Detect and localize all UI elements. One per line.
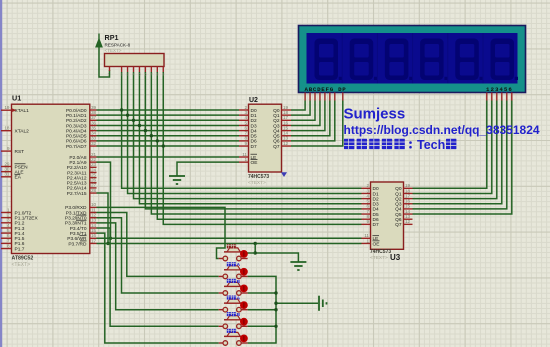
svg-text:74HC573: 74HC573 <box>248 174 269 180</box>
display 7SEG-MPX6 6-digit <box>299 26 526 101</box>
svg-text:9: 9 <box>162 73 164 77</box>
svg-text:P2.6/A14: P2.6/A14 <box>67 186 87 192</box>
svg-text:P0.2/AD2: P0.2/AD2 <box>66 118 87 124</box>
wire bus3 RP1 pin5 down through P0.3 to U3 D3 <box>139 72 361 204</box>
svg-text:Q0: Q0 <box>395 186 402 192</box>
junction P0.5 x bus5 <box>150 134 153 137</box>
wire P0.1 U1 to U2 D1 <box>97 114 240 116</box>
mcu U1 AT89C52 <box>1 94 97 268</box>
wire U2 Q7 to display segment pin <box>291 101 343 147</box>
svg-text:D2: D2 <box>373 196 379 202</box>
ground U2 OE <box>169 175 185 177</box>
svg-text:Q6: Q6 <box>395 217 402 223</box>
svg-text:31: 31 <box>4 172 10 177</box>
wire P3.2 to button3 <box>97 218 219 293</box>
svg-text:7: 7 <box>150 73 152 77</box>
svg-text:Q1: Q1 <box>273 113 280 119</box>
wire P0.2 U1 to U2 D2 <box>97 119 240 121</box>
svg-text:1: 1 <box>244 157 247 162</box>
button 显示B (button5) <box>219 312 248 329</box>
display digit 2 <box>350 39 374 81</box>
junction P0.7 x bus7 <box>162 144 165 147</box>
svg-text:P3.7/RD: P3.7/RD <box>68 241 87 247</box>
wire U2 Q1 to display segment pin <box>291 101 310 116</box>
svg-text:U1: U1 <box>12 94 21 103</box>
svg-text:P1.3: P1.3 <box>15 226 25 232</box>
wire P3.5 to button6 <box>97 233 219 343</box>
wire P2.1 down to U3 LE net <box>97 162 111 238</box>
svg-text:Q7: Q7 <box>273 144 280 150</box>
wire bus2 RP1 pin4 down through P0.2 to U3 D2 <box>134 72 362 199</box>
resistor pack RP1 RESPACK-8 <box>105 33 165 77</box>
svg-text:12: 12 <box>405 219 411 224</box>
svg-text:Q5: Q5 <box>395 212 402 218</box>
svg-text:P0.5/AD5: P0.5/AD5 <box>66 134 87 140</box>
wire bus to ground2 <box>276 302 318 304</box>
svg-text:EA: EA <box>15 175 22 181</box>
svg-text:XTAL2: XTAL2 <box>15 129 30 135</box>
wire bus5 RP1 pin7 down through P0.5 to U3 D5 <box>151 72 361 214</box>
wire bus1 RP1 pin3 down through P0.1 to U3 D1 <box>128 72 362 193</box>
svg-text:74HC573: 74HC573 <box>370 249 391 255</box>
svg-text:LE: LE <box>373 236 379 242</box>
svg-text:<TEXT>: <TEXT> <box>105 48 122 53</box>
svg-text:Q2: Q2 <box>273 118 280 124</box>
svg-text:1: 1 <box>108 73 110 77</box>
svg-text:D3: D3 <box>373 202 379 208</box>
ground button1 net <box>290 261 306 263</box>
svg-text:PSEN: PSEN <box>15 164 29 170</box>
svg-text:Q1: Q1 <box>395 191 402 197</box>
svg-text:D4: D4 <box>251 128 257 134</box>
svg-text:D0: D0 <box>251 108 257 114</box>
svg-text:P2.2/A10: P2.2/A10 <box>67 165 87 171</box>
svg-text:Q2: Q2 <box>395 196 402 202</box>
svg-text:D1: D1 <box>373 191 379 197</box>
svg-text:A: A <box>237 262 241 268</box>
button 停止B (button3) <box>219 279 248 296</box>
wire P0.3 U1 to U2 D3 <box>97 124 240 126</box>
svg-text:P0.1/AD1: P0.1/AD1 <box>66 113 87 119</box>
wire P2.0 to U2 LE <box>97 156 240 158</box>
svg-text:D0: D0 <box>373 186 379 192</box>
wire bus0 RP1 pin2 down through P0.0 to U3 D0 <box>122 72 362 188</box>
wire U2 Q5 to display segment pin <box>291 101 330 136</box>
svg-text:OE: OE <box>251 160 258 166</box>
svg-text:19: 19 <box>4 105 10 110</box>
svg-text:P2.1/A9: P2.1/A9 <box>69 160 86 166</box>
svg-text:4: 4 <box>133 73 135 77</box>
display segment pins <box>304 93 306 101</box>
button 显示A (button4) <box>219 296 248 313</box>
svg-text:OE: OE <box>373 241 380 247</box>
wire P2.7 down to U3 OE net <box>97 193 109 243</box>
wire U2 OE to ground <box>177 162 239 176</box>
svg-text:D4: D4 <box>373 207 379 213</box>
svg-text:RP1: RP1 <box>105 33 119 42</box>
display digit 5 <box>455 39 479 81</box>
svg-text:P3.0/RXD: P3.0/RXD <box>65 205 87 211</box>
svg-text:8: 8 <box>156 73 158 77</box>
svg-text:P1.7: P1.7 <box>15 246 25 252</box>
wire U2 Q0 to display segment pin <box>291 101 305 111</box>
svg-text:Sumjess: Sumjess <box>344 106 406 123</box>
svg-text:RST: RST <box>15 149 25 155</box>
wire RP1 pin1 to VCC arrow <box>99 47 110 77</box>
svg-text:D7: D7 <box>373 222 379 228</box>
wire U3 Q0 to display column 1 <box>413 101 487 189</box>
svg-text:Q5: Q5 <box>273 134 280 140</box>
svg-text:28: 28 <box>91 188 97 193</box>
svg-text:P2.3/A11: P2.3/A11 <box>67 170 87 176</box>
svg-text:P2.0/A8: P2.0/A8 <box>69 155 86 161</box>
wire U2 Q2 to display segment pin <box>291 101 315 121</box>
svg-text:Tech: Tech <box>417 138 445 152</box>
svg-text:P1.6: P1.6 <box>15 241 25 247</box>
svg-text:P0.0/AD0: P0.0/AD0 <box>66 108 87 114</box>
junction P2.1/U3 LE net <box>109 237 112 240</box>
svg-text:https://blog.csdn.net/qq_38351: https://blog.csdn.net/qq_38351824 <box>344 123 540 137</box>
display digit 4 <box>420 39 444 81</box>
svg-text:B: B <box>237 312 241 318</box>
svg-text:D6: D6 <box>373 217 379 223</box>
wire P3.3 to button4 <box>97 223 219 310</box>
svg-text:18: 18 <box>4 126 10 131</box>
wire U3 OE net branch to button1 and ground <box>254 242 257 245</box>
svg-text:ABCDEFG DP: ABCDEFG DP <box>305 86 347 93</box>
wire U3 Q5 to display column 6 <box>413 101 512 215</box>
svg-text:P2.4/A12: P2.4/A12 <box>67 175 87 181</box>
wire U3 Q4 to display column 5 <box>413 101 507 209</box>
svg-text:<TEXT>: <TEXT> <box>12 262 31 268</box>
svg-text:D5: D5 <box>373 212 379 218</box>
wire P3.7 to U3 OE <box>97 242 362 244</box>
svg-text:3: 3 <box>127 73 129 77</box>
svg-text:XTAL1: XTAL1 <box>15 108 30 114</box>
wire P0.6 U1 to U2 D6 <box>97 140 240 142</box>
wire bus7 RP1 pin9 down through P0.7 to U3 D7 <box>163 72 361 224</box>
label wechat (CJK drawn as vector glyph blocks) <box>344 139 354 149</box>
svg-text:U3: U3 <box>390 253 401 262</box>
svg-text:D1: D1 <box>251 113 257 119</box>
svg-text:6: 6 <box>144 73 146 77</box>
svg-text:U2: U2 <box>249 97 258 104</box>
svg-text:LE: LE <box>251 155 257 161</box>
wire U2 Q4 to display segment pin <box>291 101 325 131</box>
svg-text:P0.4/AD4: P0.4/AD4 <box>66 128 87 134</box>
junction P0.0 x bus0 <box>120 108 123 111</box>
wire U3 Q3 to display column 4 <box>413 101 502 204</box>
wire U2 Q6 to display segment pin <box>291 101 335 141</box>
junction P0.2 x bus2 <box>132 119 135 122</box>
svg-text:P1.1/T2EX: P1.1/T2EX <box>15 215 39 221</box>
svg-text:9: 9 <box>7 146 10 151</box>
wire button right common bus <box>248 276 276 343</box>
svg-text:P2.7/A15: P2.7/A15 <box>67 191 87 197</box>
svg-text:P1.2: P1.2 <box>15 221 25 227</box>
svg-text:12: 12 <box>283 141 289 146</box>
wire P3.6 to U3 LE <box>97 237 362 239</box>
svg-text:17: 17 <box>91 238 97 243</box>
svg-text:Q7: Q7 <box>395 222 402 228</box>
wire P0.7 U1 to U2 D7 <box>97 145 240 147</box>
svg-text:B: B <box>237 279 241 285</box>
svg-text:D6: D6 <box>251 139 257 145</box>
button 停止A (button2) <box>219 262 248 279</box>
svg-text:32: 32 <box>91 141 97 146</box>
wire U3 Q2 to display column 3 <box>413 101 497 199</box>
wire P3.0 to button1 <box>97 207 226 258</box>
wire U3 Q1 to display column 2 <box>413 101 492 194</box>
junction P0.6 x bus6 <box>156 139 159 142</box>
latch U2 74HC573 <box>239 97 291 186</box>
svg-text:P0.6/AD6: P0.6/AD6 <box>66 139 87 145</box>
svg-text:P1.4: P1.4 <box>15 231 25 237</box>
svg-text:Q6: Q6 <box>273 139 280 145</box>
svg-text:RESPACK-8: RESPACK-8 <box>105 43 131 48</box>
svg-text:Q3: Q3 <box>273 123 280 129</box>
svg-text:AT89C52: AT89C52 <box>12 256 34 262</box>
wire P3.4 to button5 <box>97 228 219 326</box>
svg-text:D5: D5 <box>251 134 257 140</box>
wire P0.4 U1 to U2 D4 <box>97 130 240 132</box>
svg-text:P3.3/INT1: P3.3/INT1 <box>65 221 87 227</box>
svg-text:2: 2 <box>121 73 123 77</box>
svg-text:9: 9 <box>244 141 247 146</box>
svg-text:D7: D7 <box>251 144 257 150</box>
wire P3.1 to button2 <box>97 213 219 277</box>
svg-text:Q3: Q3 <box>395 202 402 208</box>
svg-text:Q0: Q0 <box>273 108 280 114</box>
wire P0.5 U1 to U2 D5 <box>97 135 240 137</box>
junction P0.1 x bus1 <box>126 113 129 116</box>
ground (rotated) button common bus <box>318 296 320 311</box>
svg-text:D2: D2 <box>251 118 257 124</box>
svg-text:P1.5: P1.5 <box>15 236 25 242</box>
svg-text:8: 8 <box>7 243 10 248</box>
svg-text:P3.4/T0: P3.4/T0 <box>70 226 87 232</box>
svg-text:P1.0/T2: P1.0/T2 <box>15 210 32 216</box>
svg-text:<TEXT>: <TEXT> <box>248 180 266 186</box>
wire bus6 RP1 pin8 down through P0.6 to U3 D6 <box>157 72 361 219</box>
display digit 1 <box>315 39 339 81</box>
svg-text:<TEXT>: <TEXT> <box>370 255 388 261</box>
svg-text:P2.5/A13: P2.5/A13 <box>67 181 87 187</box>
svg-text:P0.7/AD7: P0.7/AD7 <box>66 144 87 150</box>
svg-text:A: A <box>237 296 241 302</box>
svg-text:P0.3/AD3: P0.3/AD3 <box>66 123 87 129</box>
svg-text:P3.2/INT0: P3.2/INT0 <box>65 216 87 222</box>
button 复位 (button6) <box>219 329 248 346</box>
svg-text:Q4: Q4 <box>273 128 280 134</box>
junction P0.4 x bus4 <box>144 129 147 132</box>
junction P2.7/U3 OE net <box>106 242 109 245</box>
wire P0.0 U1 to U2 D0 <box>97 109 240 111</box>
svg-text:1: 1 <box>366 238 369 243</box>
svg-text:D3: D3 <box>251 123 257 129</box>
junction P0.3 x bus3 <box>138 124 141 127</box>
display digit 3 <box>385 39 409 81</box>
wire bus4 RP1 pin6 down through P0.4 to U3 D4 <box>145 72 361 209</box>
latch U3 74HC573 <box>362 182 413 262</box>
button 开始 (button1) <box>219 244 248 261</box>
display digit 6 <box>491 39 515 81</box>
svg-text:P3.1/TXD: P3.1/TXD <box>66 210 87 216</box>
svg-text:9: 9 <box>366 219 369 224</box>
svg-text:Q4: Q4 <box>395 207 402 213</box>
display column pins <box>486 93 488 101</box>
sheet border (left edge) <box>0 0 2 347</box>
wire U2 Q3 to display segment pin <box>291 101 320 126</box>
svg-text:P3.5/T1: P3.5/T1 <box>70 231 87 237</box>
svg-text:123456: 123456 <box>486 86 513 93</box>
power VCC arrow for RP1 <box>98 34 100 40</box>
svg-text:5: 5 <box>138 73 140 77</box>
